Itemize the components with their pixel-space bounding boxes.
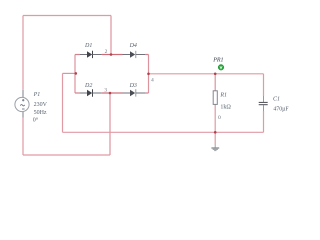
wire: left vertical from top wire to source top	[22, 16, 24, 90]
junction at bridge-left stub	[75, 72, 78, 75]
wire: left output vertical down	[62, 73, 64, 132]
AC source P1	[15, 97, 29, 111]
svg-text:D4: D4	[129, 42, 137, 49]
svg-text:D3: D3	[129, 83, 137, 89]
wire: vertical up to node 3	[109, 93, 111, 155]
svg-text:1kΩ: 1kΩ	[220, 105, 231, 111]
diode D1	[80, 51, 102, 58]
svg-text:D1: D1	[84, 43, 92, 49]
svg-text:C1: C1	[273, 97, 280, 103]
wire: bridge right vertical	[148, 55, 150, 94]
capacitor C1	[259, 96, 268, 111]
diode D4	[123, 51, 146, 58]
svg-text:P1: P1	[33, 92, 41, 98]
wire: bridge left vertical	[74, 55, 76, 94]
junction at probe on top rail	[214, 73, 217, 76]
wire: resistor top vertical	[214, 74, 216, 91]
svg-text:D2: D2	[84, 83, 92, 89]
node 3 junction	[109, 92, 112, 95]
svg-text:470µF: 470µF	[273, 107, 289, 113]
svg-text:4: 4	[151, 78, 154, 84]
node 4 junction	[147, 73, 150, 76]
svg-text:R1: R1	[219, 92, 227, 98]
wire: resistor bottom vertical	[214, 105, 216, 133]
ground	[211, 145, 219, 151]
wire: vertical down to node 2	[110, 16, 112, 55]
svg-text:50Hz: 50Hz	[34, 110, 47, 116]
wire: top branch pink segments	[75, 54, 80, 56]
wire: bottom U horizontal	[23, 154, 110, 156]
svg-text:0: 0	[218, 115, 221, 121]
wire: top rail from node 4 to capacitor column	[149, 73, 264, 75]
wire: source bottom down	[22, 112, 24, 118]
node 2 junction	[110, 53, 113, 56]
wire: ground stub	[214, 132, 216, 144]
wire: bottom rail	[63, 131, 264, 133]
svg-text:0°: 0°	[33, 117, 39, 124]
diode D3	[123, 89, 146, 96]
svg-text:PR1: PR1	[212, 57, 223, 63]
wire: top horizontal from source top to node 2 column	[23, 15, 111, 17]
svg-text:3: 3	[104, 88, 107, 94]
svg-text:2: 2	[105, 49, 108, 55]
junction at ground on bottom rail	[214, 131, 217, 134]
wire: stub from bridge-left node going left	[63, 72, 76, 74]
diode D2	[80, 89, 102, 97]
probe PR1	[218, 65, 224, 71]
svg-text:230V: 230V	[34, 102, 48, 108]
resistor R1	[213, 91, 217, 105]
wire: capacitor column vertical	[263, 74, 265, 96]
wire: bottom branch pink segments	[75, 92, 80, 94]
